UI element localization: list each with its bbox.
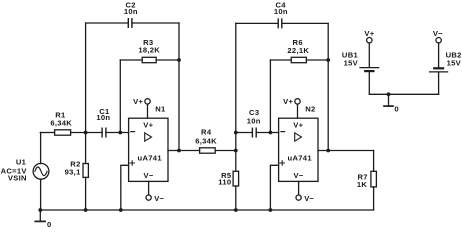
wire UB1 bottom: [368, 72, 370, 94]
svg-text:N1: N1: [155, 104, 166, 113]
wire R7 bottom lead: [373, 187, 375, 210]
wire R6 branch down to node B2: [269, 60, 271, 133]
svg-text:22,1K: 22,1K: [287, 46, 309, 55]
capacitor C4: [274, 0, 288, 27]
svg-text:V+: V+: [133, 97, 143, 106]
op-amp N2: [279, 118, 318, 181]
svg-text:V+: V+: [364, 29, 374, 38]
svg-text:V+: V+: [283, 97, 293, 106]
wire R3 branch down to node B: [119, 60, 121, 133]
wire bottom ground rail: [40, 209, 373, 211]
junction U1 bottom: [38, 208, 42, 212]
wire R6 left lead: [270, 59, 291, 61]
wire U1 bottom lead: [40, 179, 42, 210]
pin V+ terminal N2: [283, 97, 300, 118]
wire R2 bottom lead: [85, 177, 87, 210]
pin V+ battery terminal: [364, 29, 374, 43]
capacitor C3: [247, 108, 261, 137]
wire R1 to C1: [71, 132, 102, 134]
wire C3 to N2 inverting input: [256, 132, 278, 134]
wire right rail stage2: [327, 23, 329, 150]
svg-text:V−: V−: [304, 194, 314, 203]
wire UB2 bottom: [438, 73, 440, 95]
wire N2 output: [318, 150, 374, 152]
wire R3 right lead: [156, 59, 179, 61]
battery UB2: [430, 50, 462, 72]
svg-text:V−: V−: [433, 29, 443, 38]
wire N2 non-inverting input to ground rail: [270, 165, 278, 210]
pin V- terminal N2: [296, 181, 315, 203]
svg-text:VSIN: VSIN: [8, 174, 27, 183]
battery UB1: [342, 50, 379, 71]
svg-text:10n: 10n: [247, 117, 261, 126]
wire V- to UB2: [438, 43, 440, 68]
svg-text:V−: V−: [294, 171, 304, 180]
wire left rail stage1: [85, 23, 87, 133]
svg-text:R4: R4: [201, 128, 212, 137]
svg-text:93,1: 93,1: [65, 167, 81, 176]
wire C1 to N1 inverting input: [106, 132, 129, 134]
resistor R6: [287, 38, 309, 63]
wire R6 right lead: [306, 59, 328, 61]
wire R5 top lead: [235, 151, 237, 172]
node B junction: [118, 131, 122, 135]
wire C2 top left segment: [86, 22, 129, 24]
wire C4 top right segment: [282, 22, 328, 24]
wire U1 top lead: [40, 133, 42, 164]
wire R7 top lead: [373, 151, 375, 172]
wire N1 output: [168, 150, 200, 152]
wire V+ to UB1: [368, 43, 370, 67]
capacitor C2: [124, 0, 138, 27]
wire R5 bottom lead: [235, 186, 237, 210]
junction R6 right rail: [326, 58, 330, 62]
svg-text:6,34K: 6,34K: [195, 137, 217, 146]
junction node B2: [269, 131, 273, 135]
svg-text:6,34K: 6,34K: [50, 119, 72, 128]
svg-text:1K: 1K: [357, 180, 368, 189]
wire C4 top left segment: [236, 22, 278, 24]
junction R4 R5 node: [234, 149, 238, 153]
junction output1 rail: [177, 149, 181, 153]
svg-text:10n: 10n: [96, 113, 110, 122]
junction R3 right rail: [177, 58, 181, 62]
svg-text:V+: V+: [293, 120, 303, 129]
svg-text:15V: 15V: [344, 59, 359, 68]
junction C3 left node: [234, 131, 238, 135]
wire C3 left lead: [236, 132, 253, 134]
resistor R2: [65, 159, 89, 177]
svg-text:N2: N2: [305, 104, 315, 113]
resistor R4: [195, 128, 217, 154]
svg-text:18,2K: 18,2K: [138, 46, 160, 55]
source U1 VSIN: [1, 158, 49, 183]
junction R2 bottom: [84, 208, 88, 212]
capacitor C1: [96, 107, 110, 137]
wire right rail stage1: [178, 23, 180, 151]
wire R4 right lead: [215, 150, 236, 152]
node A junction: [84, 131, 88, 135]
svg-text:0: 0: [394, 104, 399, 113]
svg-text:V+: V+: [143, 120, 153, 129]
op-amp N1: [129, 118, 168, 181]
pin V+ terminal N1: [133, 97, 150, 118]
svg-text:V−: V−: [144, 171, 154, 180]
wire N1 non-inverting input to ground rail: [121, 165, 129, 210]
junction N1 plus input ground: [119, 208, 123, 212]
wire input segment U1 to R1: [40, 132, 54, 134]
svg-text:V−: V−: [154, 194, 164, 203]
wire left rail stage2: [235, 23, 237, 150]
resistor R7: [357, 171, 377, 189]
pin V- terminal N1: [146, 181, 165, 203]
junction R5 bottom: [234, 208, 238, 212]
svg-text:uA741: uA741: [288, 153, 313, 162]
svg-text:10n: 10n: [274, 7, 288, 16]
junction battery ground node: [387, 92, 391, 96]
svg-text:10n: 10n: [124, 7, 138, 16]
wire R3 left lead: [120, 59, 142, 61]
ground 0 left: [35, 210, 51, 229]
ground 0 battery: [384, 94, 399, 113]
junction output2 rail: [326, 149, 330, 153]
svg-text:110: 110: [218, 178, 231, 187]
pin V- battery terminal: [433, 29, 443, 43]
resistor R1: [50, 110, 72, 135]
svg-text:U1: U1: [16, 158, 27, 167]
svg-text:uA741: uA741: [138, 153, 163, 162]
wire battery common: [369, 93, 438, 95]
svg-text:0: 0: [47, 220, 52, 228]
wire R2 top lead: [85, 133, 87, 164]
svg-text:15V: 15V: [447, 59, 462, 68]
resistor R3: [138, 38, 160, 63]
resistor R5: [218, 171, 238, 187]
junction N2 plus input ground: [269, 208, 273, 212]
wire C2 top right segment: [132, 22, 179, 24]
